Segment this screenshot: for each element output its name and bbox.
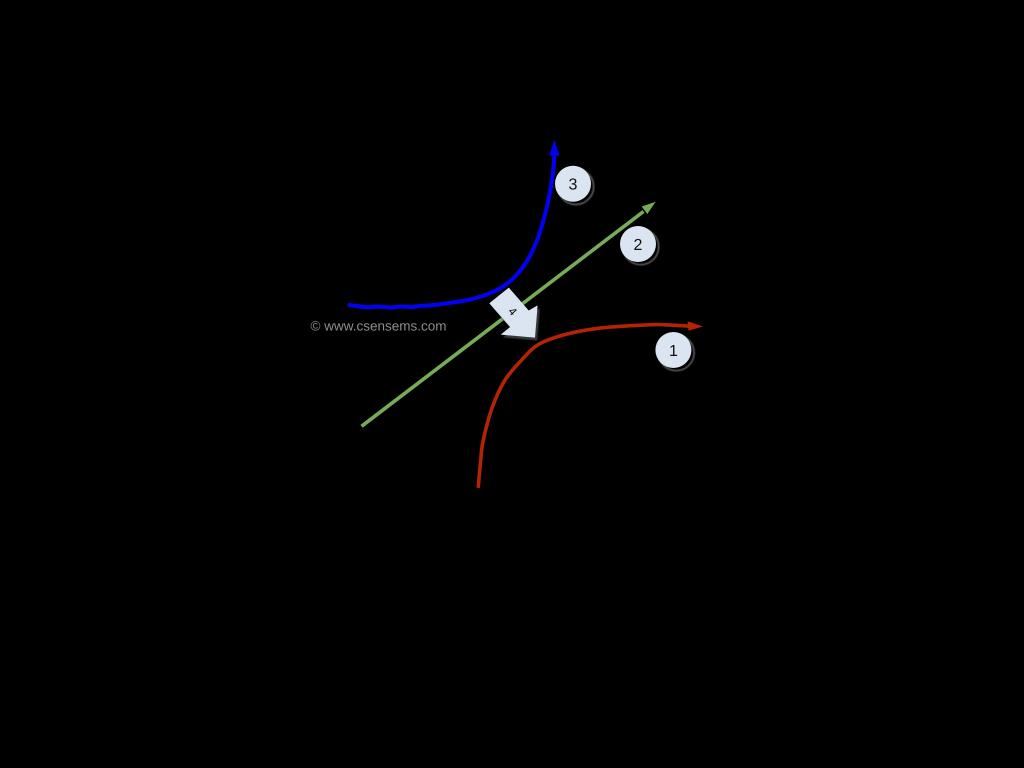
svg-text:3: 3 [569,177,578,194]
circle 3 shadow [558,169,594,205]
block arrow 4 shadow [492,291,540,341]
circle 2 [620,226,656,262]
arrowhead of curve 1 [688,321,704,331]
svg-text:© www.csensems.com: © www.csensems.com [311,319,447,334]
line 2 (green straight arrow) [362,202,656,427]
curve 3 (blue exponential curve) [350,140,560,308]
circle 2 shadow [623,229,659,265]
arrowhead of line 2 [642,202,656,214]
arrowhead of curve 3 [549,140,559,156]
circle 1 [655,332,691,368]
circle 3 [555,166,591,202]
svg-text:1: 1 [669,343,678,360]
block arrow 4 (light-blue block arrow pointing down-right) [489,288,537,338]
curve 1 (red saturation curve) [478,321,703,486]
circle 1 shadow [658,335,694,371]
svg-text:2: 2 [634,237,643,254]
